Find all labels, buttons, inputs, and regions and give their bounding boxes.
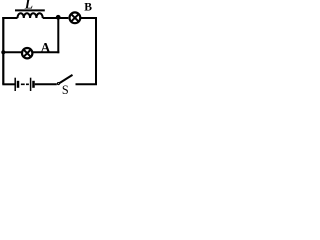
- svg-text:L: L: [24, 0, 33, 12]
- svg-text:B: B: [84, 1, 92, 14]
- svg-text:S: S: [62, 83, 69, 96]
- svg-text:A: A: [41, 40, 51, 55]
